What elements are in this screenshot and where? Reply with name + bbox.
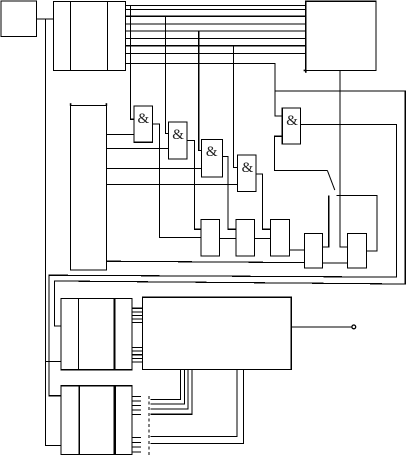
wire A3 to T5 input xyxy=(340,70,347,247)
wire T4 to T5 xyxy=(322,262,347,264)
wire RG bottom to T4 xyxy=(106,261,304,262)
decoder B3 divider thin xyxy=(78,386,80,455)
wire drop to gate D4 input 1 xyxy=(234,46,238,168)
wire D5 input 2 to switch xyxy=(274,136,327,170)
wire RG to D1 input 2 xyxy=(106,134,134,136)
wire switch contact to T5 output xyxy=(337,196,377,251)
cell T2 xyxy=(236,220,255,256)
svg-text:&: & xyxy=(172,127,184,143)
bus line 3 xyxy=(125,15,305,17)
wire B2 bottom feedback 2 xyxy=(151,370,185,404)
switch SA blade diagonal xyxy=(327,171,334,191)
wire B2 output xyxy=(291,326,352,328)
gate D2 box xyxy=(168,122,187,159)
wire RG to D3 input 2 xyxy=(106,167,201,169)
bus line 7 xyxy=(125,45,305,47)
wire B2 bottom feedback 6 xyxy=(151,370,244,444)
wire B2 bottom feedback 5 xyxy=(151,370,238,437)
memory B2 bottom-right box xyxy=(143,297,292,369)
wire main left vertical to lower decoder xyxy=(45,19,60,446)
wire D2 output to T1 xyxy=(187,141,201,230)
bus line 4 xyxy=(125,23,305,25)
tick A3 bottom-left corner xyxy=(304,70,306,72)
block A1 top-left box xyxy=(1,1,37,37)
bus line 5 xyxy=(125,30,305,32)
hatch group B1 lower xyxy=(132,348,143,362)
svg-text:&: & xyxy=(242,160,254,176)
wire B2 bottom feedback 4 xyxy=(151,370,192,415)
block A2 divider 1 xyxy=(70,2,72,71)
decoder B1 divider thick xyxy=(113,298,115,369)
wire RG to D2 input 2 xyxy=(106,148,168,150)
tick RG top-right corner xyxy=(105,103,107,106)
bus line 6 xyxy=(125,38,305,40)
tick RG top-left corner xyxy=(70,103,72,106)
hatch group B3 upper xyxy=(132,397,141,415)
wire D4 output to T3 xyxy=(256,174,271,229)
wire T2 to T3 xyxy=(254,237,270,239)
hatch group B3 lower xyxy=(132,438,141,452)
gate D5 box xyxy=(282,108,300,144)
wire RG to D4 input 2 xyxy=(106,183,237,185)
wire B2 bottom feedback 1 xyxy=(151,370,181,400)
bus line 2 xyxy=(125,9,305,11)
wire switch contact to T4 output xyxy=(322,196,329,248)
wire D5 output down right side to lower decoder xyxy=(49,125,397,396)
wire D1 output to T1 xyxy=(152,124,201,238)
decoder B3 divider thick xyxy=(114,386,116,455)
wire D3 output to T2 xyxy=(222,157,236,230)
block A3 top-right box xyxy=(306,1,376,70)
wire A1 to A2 xyxy=(37,18,54,20)
wire T1 to T2 xyxy=(219,237,235,239)
svg-text:&: & xyxy=(206,144,218,160)
cell T4 xyxy=(305,233,323,268)
wire drop to gate D3 input 1 xyxy=(199,31,202,151)
wire drop to gate D2 input 1 xyxy=(165,16,168,133)
bus line 8 xyxy=(125,52,305,54)
wire right rail from bus to upper decoder xyxy=(54,91,405,326)
bus line 9 drop to gate D5 input 1 xyxy=(125,63,282,116)
wire branch to upper decoder xyxy=(45,361,60,363)
block A2 three-section box xyxy=(54,2,126,71)
svg-text:&: & xyxy=(138,111,150,127)
decoder B1 divider thin xyxy=(78,298,80,369)
gate D1 box xyxy=(134,106,152,142)
cell T3 xyxy=(271,220,290,256)
wire drop to gate D1 input 1 xyxy=(130,5,134,119)
gate D4 box xyxy=(238,155,256,191)
cell T1 xyxy=(201,220,220,256)
gate D3 box xyxy=(202,140,223,177)
decoder B3 lower-left bottom box xyxy=(61,386,132,455)
block A2 divider 2 xyxy=(106,2,108,71)
svg-text:&: & xyxy=(286,113,298,129)
wire T3 to T4 xyxy=(290,249,305,251)
bus line 1 xyxy=(125,4,305,6)
cell T5 xyxy=(347,233,366,268)
register RG tall box xyxy=(71,106,107,271)
hatch group B1 upper xyxy=(132,308,143,322)
output terminal circle xyxy=(352,325,356,329)
cable boundary dashed xyxy=(148,396,150,455)
decoder B1 upper-left bottom box xyxy=(61,298,132,369)
wire B2 bottom feedback 3 xyxy=(151,370,188,410)
